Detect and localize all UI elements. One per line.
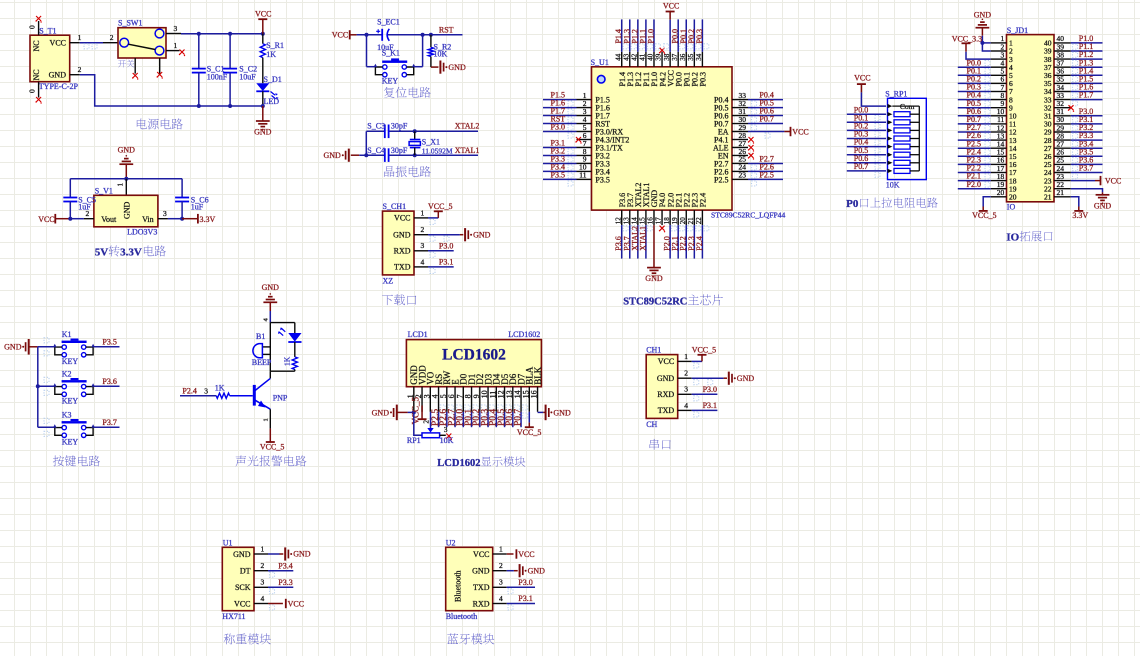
svg-text:36: 36 [679,53,687,61]
svg-text:3.3V: 3.3V [1072,211,1088,220]
RP1 resistor element 3 net P0.2 [847,122,920,137]
power VCC (top of R1) [255,10,271,34]
JD1 pin 29 net P3.2 [1044,123,1103,138]
resistor R1 1K [260,34,284,83]
JD1 pin 28 net P3.3 [1044,131,1103,146]
JD1 pin 24 net P3.7 [1044,164,1103,179]
svg-text:3: 3 [684,385,688,394]
svg-text:1K: 1K [283,356,292,366]
svg-text:VCC: VCC [663,2,679,11]
resistor R4 1K (base) [180,384,253,399]
JD1 pin 36 net P1.4 [1044,66,1103,81]
LCD1 pin 6 E net P2.7 [447,379,462,427]
svg-text:S_K1: S_K1 [382,49,400,58]
svg-text:1: 1 [684,352,688,361]
U1 pin 29 EA [718,123,809,138]
svg-text:3.3V: 3.3V [120,247,142,259]
svg-text:P3.4: P3.4 [278,561,292,570]
svg-text:S_SW1: S_SW1 [118,19,142,28]
svg-text:S_JD1: S_JD1 [1007,26,1028,35]
JD1 pin 6 net P0.2 [958,75,1013,89]
U1 pin 26 EN [718,147,754,161]
svg-text:BEEP: BEEP [252,358,272,367]
wire LDO top rail [70,178,182,180]
svg-text:21: 21 [687,217,695,225]
LCD1 pin 13 D6 net P0.6 [505,373,520,427]
LCD1 module body [406,340,541,387]
U1 pin 14 XTAL2 [630,183,644,259]
svg-text:VCC_5: VCC_5 [260,443,284,452]
U1 pin 36 P0.1 [679,19,693,86]
U1 pin 5 P3.0/RX [543,123,623,138]
JD1 pin 4 net P0.0 [958,58,1013,72]
svg-text:41: 41 [639,53,647,61]
crystal X1 11.0592M [409,131,453,155]
JD1 pin 26 net P3.5 [1044,147,1103,162]
JD1 pin 33 net P1.7 [1044,91,1103,106]
svg-text:CH: CH [646,420,657,429]
svg-text:B1: B1 [256,332,265,341]
svg-text:4: 4 [421,257,425,266]
svg-text:1K: 1K [266,50,276,59]
svg-text:K1: K1 [62,330,72,339]
svg-text:44: 44 [614,53,622,61]
svg-text:2: 2 [499,561,503,570]
svg-text:P3.7: P3.7 [102,418,116,427]
ground GND (alarm) [262,283,280,311]
svg-text:20: 20 [1009,193,1017,202]
wire XTAL1 rail [359,154,385,156]
svg-text:P0: P0 [846,198,859,210]
svg-text:U2: U2 [446,539,456,548]
U1 pin 42 P1.2 [630,19,644,86]
U1 pin 2 P1.6 [543,99,610,114]
svg-text:S_EC1: S_EC1 [377,17,400,26]
U1 pin 23 P2.5 [714,171,783,186]
U2 pin 4 RXD net P3.1 [493,594,535,610]
svg-text:KEY: KEY [62,357,79,366]
T1 pin 0 top (no connect) [28,16,42,35]
power VCC_5 (LCD pin2) [411,396,427,424]
svg-text:Bluetooth: Bluetooth [454,570,463,602]
power VCC (RP1) [854,74,870,93]
U1 pin 17 P4.0 [655,193,668,233]
T1 pin 0 bottom (no connect) [28,82,42,104]
buzzer B1 BEEP [252,323,272,372]
JD1 pin 32 [1044,99,1074,112]
svg-text:S_X1: S_X1 [422,137,440,146]
U1 pin 6 P4.3/INT2 [575,131,629,145]
svg-text:VCC: VCC [38,215,54,224]
U1 pin 8 P3.2 [543,147,610,162]
svg-text:GND: GND [49,71,67,80]
svg-text:1: 1 [421,208,425,217]
download port S_CH1 connector [383,202,415,286]
junction C1 top [197,32,201,36]
RP1 resistor element 8 net P0.7 [847,162,920,177]
svg-text:21: 21 [1057,188,1065,197]
regulator V1 LDO3V3 [94,179,158,237]
SW1 pin 3 [166,24,181,34]
svg-text:2: 2 [684,369,688,378]
junction C1 bottom [197,104,201,108]
svg-text:19: 19 [671,217,679,225]
label 开关 [118,60,126,67]
U1 pin 33 P0.4 [714,91,783,106]
U1 pin 9 P3.3 [543,155,610,170]
U2 pin 1 VCC power [493,544,535,558]
ground GND (crystal) [323,149,359,162]
U1 pin 4 VCC power [254,594,304,610]
svg-text:4: 4 [499,594,503,603]
U1 pin 15 XTAL1 [638,183,652,259]
svg-text:TYPE-C-2P: TYPE-C-2P [39,82,79,91]
U1 pin 44 P1.4 [614,19,628,86]
svg-text:P2.5: P2.5 [714,175,728,184]
svg-text:13: 13 [622,217,630,225]
svg-text:K3: K3 [62,411,72,420]
svg-text:VCC_5: VCC_5 [972,211,996,220]
wire VCC rail top [181,33,263,35]
wire keys bus [37,347,39,428]
svg-text:U1: U1 [223,539,233,548]
svg-text:30pF: 30pF [391,146,408,155]
U1 pin-1 marker [597,75,605,83]
JD1 pin 1 [991,34,1013,47]
download port S_CH1 pin 3 RXD wire net P3.0 [414,241,454,257]
svg-text:0: 0 [28,25,37,29]
U1 pin 2 DT net P3.4 [254,561,293,577]
svg-text:34: 34 [695,53,703,61]
svg-text:40: 40 [647,53,655,61]
svg-text:P3.1: P3.1 [518,594,532,603]
JD1 pin 25 net P3.6 [1044,156,1103,171]
svg-text:P0.3: P0.3 [695,29,704,43]
svg-text:VCC: VCC [288,599,304,608]
wire GND rail bottom [80,75,263,106]
junction K2 row [36,384,40,388]
wire K2 to net P3.6 [44,377,120,395]
LCD1 pin 15 BLA [521,366,534,412]
RP1 resistor element 5 net P0.4 [847,138,920,153]
caption 按键电路 [53,455,64,466]
svg-text:37: 37 [671,53,679,61]
U1 pin 10 P3.4 [543,163,610,178]
svg-text:XZ: XZ [383,277,394,286]
junction LED bottom [261,104,265,108]
power VCC (reset) [332,30,357,39]
svg-text:2: 2 [422,420,430,424]
U1 pin 21 P2.3 [687,193,701,259]
key K3 [38,411,95,447]
svg-text:P3.0: P3.0 [703,385,717,394]
U1 pin 37 P0.0 [671,19,685,86]
power VCC_5 (JD1 pin20) [972,197,996,220]
svg-text:GND: GND [553,408,571,417]
LED D1 [256,75,281,106]
capacitor EC1 10uF (electrolytic) [376,17,400,52]
JD1 pin 35 net P1.5 [1044,75,1103,90]
wire VCC to RP1 pin1 [861,92,886,106]
svg-text:LCD1: LCD1 [408,330,428,339]
U1 pin 11 P3.5 [543,171,610,186]
RP1 pin 1 Com [888,102,920,111]
download port S_CH1 pin 2 GND wire [414,225,491,241]
JD1 pin 11 net P0.7 [958,115,1017,129]
junction X1 top [413,129,417,133]
svg-text:GND: GND [323,151,341,160]
junction C5 bottom [68,217,72,221]
svg-text:VCC_5: VCC_5 [692,345,716,354]
wire crystal riser [365,131,367,155]
RP1 common bus [918,106,920,171]
svg-text:S_CH1: S_CH1 [383,202,407,211]
svg-text:XTAL1: XTAL1 [455,146,480,155]
JD1 pin 22 [1044,180,1071,193]
svg-text:P1.0: P1.0 [646,29,655,43]
U1 pin 12 P3.6 [614,193,628,259]
JD1 pin 38 net P1.2 [1044,50,1103,65]
serial port CH1 pin 4 TXD wire net P3.1 [678,401,718,417]
capacitor C2 10uF [223,34,257,106]
LCD1 pin 5 RW net P2.6 [439,370,454,427]
svg-text:LCD1602: LCD1602 [437,458,480,469]
power 3.3V [182,214,215,224]
svg-text:16: 16 [530,390,539,398]
svg-text:TXD: TXD [473,583,490,592]
svg-text:VCC: VCC [1105,177,1121,186]
svg-text:38: 38 [663,53,671,61]
serial port CH1 pin 2 GND wire [678,369,755,385]
ground GND (reset) [431,61,466,74]
svg-text:GND: GND [254,128,272,137]
svg-text:1K: 1K [215,384,225,393]
ground GND (LCD pin16 BLK) [538,405,571,421]
svg-text:1uF: 1uF [191,202,204,211]
JD1 pin 16 net P2.3 [958,156,1017,170]
U1 pin 28 P4.1 [714,131,754,145]
U1 pin 4 RST [543,115,610,130]
svg-text:3: 3 [444,425,448,434]
JD1 pin 30 net P3.1 [1044,115,1103,130]
RP1 resistor element 6 net P0.5 [847,146,920,161]
U1 pin 20 P2.2 [679,193,693,259]
wire XTAL2 rail [366,130,385,132]
potentiometer RP1 10K (LCD contrast) [407,412,454,445]
svg-text:11.0592M: 11.0592M [422,146,453,155]
svg-text:P0.3: P0.3 [699,72,708,86]
svg-text:VCC: VCC [792,127,808,136]
svg-text:P3.3: P3.3 [278,578,292,587]
JD1 pin 14 net P2.5 [958,139,1017,153]
svg-text:1: 1 [499,544,503,553]
svg-text:S_C4: S_C4 [367,146,385,155]
svg-text:1: 1 [174,41,178,50]
svg-text:VCC: VCC [658,357,674,366]
svg-text:VCC: VCC [255,10,271,19]
svg-text:20: 20 [997,188,1005,197]
junction LDO GND [124,177,128,181]
svg-text:11: 11 [579,171,586,180]
ground GND (JD1 pin22) [1071,189,1112,211]
JD1 pin 2 [991,42,1013,55]
svg-text:P3.5: P3.5 [595,175,609,184]
U1 pin 40 P1.0 [646,19,660,86]
key K2 [38,370,95,406]
download port S_CH1 pin 4 TXD wire net P3.1 [414,257,454,273]
svg-text:0: 0 [28,89,37,93]
T1 pin 2 GND [70,65,82,75]
svg-text:GND: GND [473,230,491,239]
svg-text:GND: GND [657,374,675,383]
LCD1 pin 9 D2 net P0.2 [472,374,487,427]
U1 pin 24 P2.6 [714,163,783,178]
resistor R3 1K (alarm) [283,342,298,371]
svg-text:1uF: 1uF [78,202,91,211]
svg-text:S_U1: S_U1 [591,58,609,67]
U1 pin 3 SCK net P3.3 [254,578,293,594]
svg-text:P3.5: P3.5 [102,338,116,347]
svg-text:Bluetooth: Bluetooth [446,612,478,621]
node top of buzzer/LED [263,318,295,323]
svg-text:P3.1: P3.1 [439,258,453,267]
JD1 pin 23 [1044,172,1071,185]
wire GND to JD1 pins 1-2 [982,36,990,51]
svg-text:GND: GND [233,550,251,559]
wire to collector [269,371,271,378]
T1 pin 1 VCC [70,33,82,43]
JD1 pin 15 net P2.4 [958,147,1017,161]
svg-text:VCC_5: VCC_5 [411,396,421,424]
junction X1 bottom [413,153,417,157]
svg-text:3: 3 [163,209,167,218]
svg-text:3: 3 [174,24,178,33]
JD1 pin 5 net P0.1 [958,66,1013,80]
svg-text:GND: GND [974,11,992,20]
svg-text:S_V1: S_V1 [95,187,113,196]
RP1 resistor element 4 net P0.3 [847,130,920,145]
svg-text:S_RP1: S_RP1 [885,89,907,98]
svg-text:K2: K2 [62,370,72,379]
svg-text:GND: GND [393,231,411,240]
svg-text:P2.4: P2.4 [699,193,708,207]
U1 pin 31 P0.6 [714,107,783,122]
svg-text:LED: LED [264,97,280,106]
svg-text:SCK: SCK [235,583,251,592]
svg-text:22: 22 [695,217,703,225]
svg-text:TXD: TXD [394,263,411,272]
power VCC (JD1 pin23) [1071,176,1122,186]
LED D2 (alarm) [278,323,301,342]
JD1 pin 40 net P1.0 [1044,34,1103,49]
connector T1 (TYPE-C-2P) [30,27,78,92]
svg-text:S_R1: S_R1 [266,41,284,50]
svg-text:TXD: TXD [658,406,675,415]
svg-text:P0.7: P0.7 [854,162,868,171]
ground GND (JD1 top) [974,11,992,36]
wire T1.VCC to SW1.2 [80,42,103,44]
svg-text:S_C3: S_C3 [367,122,385,131]
power VCC_3.3 (JD1 pin3) [952,34,991,59]
svg-text:4: 4 [263,318,270,322]
svg-text:21: 21 [1044,193,1052,202]
svg-text:1: 1 [117,183,125,187]
junction C2 top [228,32,232,36]
svg-text:GND: GND [1094,201,1112,210]
JD1 pin 18 net P2.1 [958,172,1017,186]
wire GND down to node [269,311,271,323]
svg-text:VCC: VCC [332,30,348,39]
svg-text:RXD: RXD [473,599,490,608]
caption 晶振电路 [384,166,394,177]
transistor Q1 PNP [254,378,288,409]
svg-text:RXD: RXD [394,247,411,256]
svg-text:P0.7: P0.7 [513,409,523,426]
svg-text:GND: GND [528,566,546,575]
U1 pin 32 P0.5 [714,99,783,114]
svg-text:P3.5: P3.5 [551,171,565,180]
SW1 pin 2 [103,33,118,43]
capacitor C5 1uF [63,179,96,219]
svg-text:3: 3 [421,241,425,250]
JD1 pin 34 net P1.6 [1044,83,1103,98]
ground GND (LDO) [118,146,136,179]
svg-text:S_T1: S_T1 [39,27,56,36]
svg-text:VCC: VCC [394,214,410,223]
U1 pin 43 P1.3 [622,19,636,86]
op-amp U1 body (MCU STC89C52RC) [592,67,733,210]
power 3.3V (JD1 pin21) [1071,197,1089,220]
JD1 pin 21 [1044,188,1071,201]
svg-text:PNP: PNP [273,393,288,402]
V1 pin 3 Vin [158,209,182,219]
svg-text:GND: GND [293,550,311,559]
U1 pin 3 P1.7 [543,107,610,122]
svg-text:P0.7: P0.7 [759,115,773,124]
resistor R2 10K [428,35,451,67]
caption 电源电路 [137,118,147,129]
svg-text:NC: NC [32,69,41,80]
LCD1 pin 3 VO [422,371,435,411]
svg-text:4: 4 [684,401,688,410]
svg-text:VCC: VCC [473,550,489,559]
svg-text:S_D1: S_D1 [264,75,282,84]
svg-text:P1.7: P1.7 [1079,91,1093,100]
serial port CH1 connector [646,345,678,429]
U1 pin 1 GND [254,544,311,560]
svg-text:P3.7: P3.7 [1079,164,1093,173]
svg-text:3: 3 [499,578,503,587]
svg-text:NC: NC [32,40,41,51]
JD1 pin 19 net P2.0 [958,180,1017,194]
svg-text:1: 1 [78,33,82,42]
svg-text:STC89C52RC_LQFP44: STC89C52RC_LQFP44 [711,210,785,219]
key K1 [38,330,95,366]
caption 下载口 [382,295,393,306]
svg-text:3: 3 [261,578,265,587]
svg-text:LCD1602: LCD1602 [508,330,540,339]
U1 pin 35 P0.2 [687,19,701,86]
svg-text:GND: GND [123,201,132,219]
svg-text:4: 4 [261,594,265,603]
svg-text:GND: GND [737,374,755,383]
U1 pin 34 P0.3 [695,19,709,86]
svg-text:VCC: VCC [854,74,870,83]
svg-text:KEY: KEY [382,77,399,86]
svg-text:2: 2 [110,33,114,42]
JD1 pin 8 net P0.4 [958,91,1013,105]
svg-text:GND: GND [372,408,390,417]
